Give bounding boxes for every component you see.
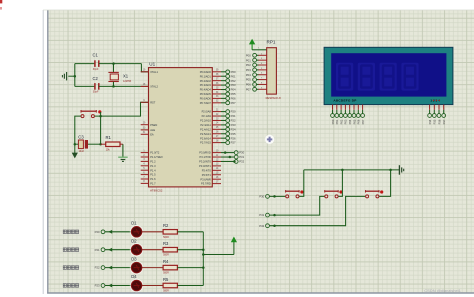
wire LED D1 to resistor R2	[142, 231, 163, 233]
node P30 at U1	[234, 151, 244, 155]
LED D2	[130, 238, 144, 256]
svg-text:P0.7/AD7: P0.7/AD7	[200, 101, 212, 105]
svg-text:P03: P03	[344, 119, 348, 124]
pin P3.5/T1 (pin 15) of U1	[202, 173, 221, 177]
junction C3 left	[74, 143, 77, 146]
svg-text:X1: X1	[123, 74, 129, 79]
pin G stub of display	[357, 105, 359, 110]
pin 2 stub of RP1	[259, 53, 267, 55]
svg-text:P1.3: P1.3	[150, 164, 156, 168]
wire display digit 3	[438, 110, 440, 114]
node P02 at U1	[226, 79, 236, 83]
svg-text:P30: P30	[239, 151, 244, 155]
LED D4	[130, 274, 144, 292]
node P36 at display	[437, 114, 441, 125]
svg-text:P32: P32	[239, 160, 244, 164]
svg-text:P2.7/A15: P2.7/A15	[200, 141, 211, 145]
pin EA (pin 31) of U1	[141, 132, 154, 136]
svg-text:C2: C2	[93, 76, 99, 81]
pin 7 stub of RP1	[259, 78, 267, 80]
wire display segment G	[357, 110, 359, 114]
arrow junction on P23 wire	[108, 284, 112, 288]
red junction dot on button 3	[380, 190, 383, 193]
svg-text:500R: 500R	[163, 254, 169, 257]
svg-text:P07: P07	[361, 119, 365, 124]
digit 2 segments	[358, 63, 375, 91]
wire RP1 pin 7	[256, 79, 258, 81]
supply bus vertical	[202, 232, 204, 286]
pin P2.3/A11 (pin 24) of U1	[200, 123, 221, 127]
wire resistor R5 to supply bus	[177, 285, 203, 287]
junction button 3 on rail	[389, 169, 392, 172]
screen corner mark pink	[0, 7, 2, 10]
junction on P3.2 wire	[233, 160, 236, 163]
resistor R3	[163, 241, 177, 257]
digit-select pin 2 stub of display	[433, 105, 435, 110]
capacitor C1	[93, 53, 99, 71]
pin 8 stub of RP1	[259, 82, 267, 84]
wire power to RP1 pin 1	[252, 49, 267, 51]
ground below R1	[118, 144, 128, 161]
svg-text:D3: D3	[131, 256, 137, 261]
svg-text:D1: D1	[131, 221, 137, 226]
node P00 at display	[331, 114, 335, 125]
pin F stub of display	[353, 105, 355, 110]
node P02 at display	[339, 114, 343, 125]
pin E stub of display	[349, 105, 351, 110]
wire P2.0 to terminal	[221, 111, 226, 113]
ground rail (buttons)	[304, 169, 400, 171]
svg-text:P34: P34	[428, 119, 432, 124]
svg-text:P3.1/TXD: P3.1/TXD	[200, 155, 211, 159]
node P20 at U1	[226, 110, 236, 114]
pin P2.7/A15 (pin 28) of U1	[200, 140, 221, 144]
pin RST (pin 9) of U1	[141, 100, 156, 104]
svg-text:12MHZ: 12MHZ	[123, 80, 132, 83]
svg-text:P01: P01	[246, 58, 251, 62]
svg-text:P20: P20	[231, 110, 236, 114]
pin P0.4/AD4 (pin 35) of U1	[200, 87, 221, 91]
node P00 at RP1	[246, 53, 257, 57]
svg-text:P0.0/AD0: P0.0/AD0	[200, 70, 212, 74]
ground (sideways) left of C1/C2	[62, 72, 75, 80]
node P20 at LED row	[95, 230, 105, 234]
svg-text:R4: R4	[163, 259, 169, 264]
capacitor C2	[93, 76, 99, 93]
svg-text:P02: P02	[339, 119, 343, 124]
node P02 at RP1	[246, 63, 257, 67]
pin P1.2 (pin 3) of U1	[141, 159, 156, 163]
pin P2.1/A9 (pin 22) of U1	[202, 114, 221, 118]
node P25 at U1	[226, 132, 236, 136]
ground terminal (down arrow) below C3	[72, 144, 78, 158]
svg-text:P07: P07	[231, 101, 236, 105]
node P27 at U1	[226, 141, 236, 145]
node P32 at buttons	[259, 224, 269, 228]
svg-text:1 2 3 4: 1 2 3 4	[430, 98, 440, 102]
pin P0.0/AD0 (pin 39) of U1	[200, 70, 221, 74]
pin 9 stub of RP1	[259, 87, 267, 89]
pin P0.7/AD7 (pin 32) of U1	[200, 101, 221, 105]
node P22 at U1	[226, 119, 236, 123]
node P34 at display	[428, 114, 432, 125]
wire display segment C	[340, 110, 342, 114]
arrow junction on P22 wire	[108, 266, 112, 270]
svg-text:XTAL2: XTAL2	[150, 85, 158, 89]
wire display segment E	[349, 110, 351, 114]
svg-text:10uF: 10uF	[79, 150, 85, 153]
svg-text:30pF: 30pF	[93, 91, 99, 94]
node P07 at U1	[226, 101, 236, 105]
node P01 at RP1	[246, 58, 257, 62]
wire P0.3 to terminal	[221, 84, 226, 86]
pin P0.1/AD1 (pin 38) of U1	[200, 74, 221, 78]
pin P2.0/A8 (pin 21) of U1	[202, 109, 221, 113]
digit-select pin 3 stub of display	[438, 105, 440, 110]
svg-text:D4: D4	[131, 274, 137, 279]
wire resistor R3 to supply bus	[177, 249, 203, 251]
node P32 at U1	[234, 160, 244, 164]
label (Chinese) for P21	[63, 248, 78, 252]
svg-text:P1.0/T2: P1.0/T2	[150, 151, 160, 155]
svg-text:P22: P22	[95, 266, 100, 270]
wire RP1 pin 5	[256, 69, 258, 71]
svg-text:30pF: 30pF	[93, 68, 99, 71]
svg-text:P0.2/AD2: P0.2/AD2	[200, 79, 212, 83]
wire P32 to button 3	[269, 196, 365, 225]
capacitor C3 (electrolytic)	[75, 134, 101, 153]
svg-text:P04: P04	[348, 119, 352, 124]
wire C2 to XTAL2	[99, 85, 149, 87]
ground (sideways) right of button rail	[399, 165, 403, 175]
svg-text:P36: P36	[437, 119, 441, 124]
pin 4 stub of RP1	[259, 63, 267, 65]
wire RP1 pin 2	[256, 54, 258, 56]
pin D stub of display	[344, 105, 346, 110]
wire display segment H	[362, 110, 364, 114]
pin P2.6/A14 (pin 27) of U1	[200, 136, 221, 140]
wire P3.2 to terminal	[221, 160, 234, 162]
window edge line	[42, 10, 44, 294]
svg-text:CSDN @dianzishej1: CSDN @dianzishej1	[424, 288, 461, 293]
junction button 2 on rail	[341, 169, 344, 172]
svg-text:P05: P05	[352, 119, 356, 124]
wire P2.6 to terminal	[221, 137, 226, 139]
svg-text:P23: P23	[231, 123, 236, 127]
junction on P3.1 wire	[229, 156, 232, 159]
svg-text:C1: C1	[93, 53, 99, 58]
pin P1.4 (pin 5) of U1	[141, 168, 156, 172]
label 1.2.3.4 on display	[430, 98, 440, 102]
screen corner mark red	[0, 0, 2, 3]
node P05 at RP1	[246, 78, 257, 82]
label (Chinese) for P22	[63, 266, 78, 270]
display screen	[331, 53, 446, 96]
wire RP1 pin 9	[256, 88, 258, 90]
wire P0.2 to terminal	[221, 80, 226, 82]
svg-text:P30: P30	[259, 195, 264, 199]
node P03 at display	[344, 114, 348, 125]
node P06 at RP1	[246, 83, 257, 87]
svg-text:P2.2/A10: P2.2/A10	[200, 119, 211, 123]
pin 3 stub of RP1	[259, 58, 267, 60]
svg-text:P2.4/A12: P2.4/A12	[200, 127, 211, 131]
junction C3-R1	[99, 143, 102, 146]
red junction dot on button 2	[339, 190, 342, 193]
power terminal at RP1 pin 1	[249, 39, 255, 50]
svg-text:P25: P25	[231, 132, 236, 136]
pin P2.4/A12 (pin 25) of U1	[200, 127, 221, 131]
sheet border bottom	[47, 292, 474, 294]
svg-text:P2.6/A14: P2.6/A14	[200, 136, 211, 140]
svg-text:P3.5/T1: P3.5/T1	[202, 173, 212, 177]
display LCD1 (4-digit 7-seg panel) frame	[324, 47, 453, 104]
wire display digit 1	[429, 110, 431, 114]
pin ALE (pin 30) of U1	[141, 128, 156, 132]
svg-text:P00: P00	[331, 119, 335, 124]
svg-text:P3.7/RD: P3.7/RD	[201, 182, 211, 186]
svg-text:C3: C3	[78, 134, 84, 139]
wire LED D4 to resistor R5	[142, 285, 163, 287]
svg-text:500R: 500R	[163, 290, 169, 293]
push button (reset)	[81, 110, 96, 118]
svg-text:P06: P06	[357, 119, 361, 124]
node P04 at U1	[226, 88, 236, 92]
wire LED D2 to resistor R3	[142, 249, 163, 251]
svg-text:P01: P01	[335, 119, 339, 124]
svg-text:P0.6/AD6: P0.6/AD6	[200, 96, 212, 100]
pin P2.5/A13 (pin 26) of U1	[200, 132, 221, 136]
sheet border left	[47, 10, 49, 293]
svg-text:P31: P31	[239, 155, 244, 159]
node P23 at U1	[226, 123, 236, 127]
svg-text:P2.0/A8: P2.0/A8	[202, 110, 212, 114]
label (Chinese) for P23	[63, 284, 78, 288]
svg-text:P3.6/WR: P3.6/WR	[200, 177, 211, 181]
svg-text:P20: P20	[95, 230, 100, 234]
node P01 at U1	[226, 74, 236, 78]
pin P3.1/TXD (pin 11) of U1	[200, 155, 221, 159]
svg-text:P27: P27	[231, 141, 236, 145]
red junction dot on button 1	[300, 190, 303, 193]
pin 6 stub of RP1	[259, 73, 267, 75]
svg-text:P3.0/RXD: P3.0/RXD	[199, 151, 211, 155]
svg-text:P02: P02	[246, 63, 251, 67]
arrow junction on P20 wire	[108, 230, 112, 234]
junction reset node	[99, 115, 102, 118]
node P07 at display	[361, 114, 365, 125]
junction crystal bottom	[112, 85, 115, 88]
wire P2.2 to terminal	[221, 119, 226, 121]
pin 5 stub of RP1	[259, 68, 267, 70]
svg-text:P06: P06	[231, 96, 236, 100]
wire display digit 2	[433, 110, 435, 114]
push button 3 (P32)	[366, 190, 380, 198]
wire left vertical of crystal caps	[74, 64, 76, 87]
wire LED D3 to resistor R4	[142, 267, 163, 269]
svg-text:P21: P21	[95, 248, 100, 252]
pin P3.3/INT1 (pin 13) of U1	[199, 164, 221, 168]
junction bus branch	[202, 253, 205, 256]
node P21 at U1	[226, 114, 236, 118]
digit-select pin 4 stub of display	[443, 105, 445, 110]
node P31 at buttons	[259, 213, 269, 217]
wire P30 to button 1	[269, 195, 285, 197]
node P37 at display	[442, 114, 446, 125]
wire into XTAL1	[141, 64, 148, 72]
node P26 at U1	[226, 136, 236, 140]
svg-text:P0.4/AD4: P0.4/AD4	[200, 88, 212, 92]
wire bus to power terminal	[203, 254, 234, 256]
pin P1.5 (pin 6) of U1	[141, 172, 156, 176]
node P31 at U1	[234, 155, 244, 159]
node P01 at display	[335, 114, 339, 125]
wire P2.5 to terminal	[221, 133, 226, 135]
junction on P3.0 wire	[224, 151, 227, 154]
svg-text:P26: P26	[231, 136, 236, 140]
red junction dot on reset button	[98, 110, 101, 113]
svg-text:P0.5/AD5: P0.5/AD5	[200, 92, 212, 96]
wire P0.0 to terminal	[221, 71, 226, 73]
node P05 at display	[352, 114, 356, 125]
node P03 at RP1	[246, 68, 257, 72]
pin P3.7/RD (pin 17) of U1	[201, 181, 221, 185]
resistor R4	[163, 259, 177, 275]
node P30 at buttons	[259, 195, 269, 199]
wire RP1 pin 8	[256, 83, 258, 85]
svg-text:P06: P06	[246, 83, 251, 87]
resistor pack RP1 body	[266, 39, 282, 99]
node P22 at LED row	[95, 266, 105, 270]
svg-text:P00: P00	[231, 70, 236, 74]
pin P0.6/AD6 (pin 33) of U1	[200, 96, 221, 100]
svg-text:500R: 500R	[163, 236, 169, 239]
pin P1.7 (pin 8) of U1	[141, 181, 156, 185]
svg-text:PSEN: PSEN	[150, 123, 157, 127]
svg-text:R1: R1	[106, 135, 112, 140]
pin C stub of display	[340, 105, 342, 110]
node P00 at U1	[226, 70, 236, 74]
svg-text:P1.5: P1.5	[150, 173, 156, 177]
junction on P32 wire	[273, 224, 276, 227]
junction bus row 2	[202, 248, 205, 251]
svg-text:P1.6: P1.6	[150, 177, 156, 181]
pin H stub of display	[362, 105, 364, 110]
wire resistor R2 to supply bus	[177, 231, 203, 233]
pin P0.5/AD5 (pin 34) of U1	[200, 92, 221, 96]
svg-text:P2.3/A11: P2.3/A11	[200, 123, 211, 127]
svg-text:U1: U1	[149, 62, 155, 67]
label (Chinese) for P20	[63, 230, 78, 234]
svg-text:P05: P05	[246, 78, 251, 82]
resistor R1	[101, 135, 123, 152]
junction crystal top	[112, 62, 115, 65]
pin P3.2/INT0 (pin 12) of U1	[199, 159, 221, 163]
microcontroller U1 body	[149, 62, 213, 193]
svg-text:P1.4: P1.4	[150, 168, 156, 172]
digit 3 segments	[380, 63, 397, 91]
wire button 3 to ground rail	[379, 170, 390, 197]
arrow junction on P21 wire	[108, 248, 112, 252]
pin P1.1/T2EX (pin 2) of U1	[141, 155, 163, 159]
wire display segment D	[344, 110, 346, 114]
wire display segment F	[353, 110, 355, 114]
wire to C1 left	[75, 63, 95, 65]
svg-text:P02: P02	[231, 79, 236, 83]
wire P2.4 to terminal	[221, 128, 226, 130]
wire P0.1 to terminal	[221, 75, 226, 77]
push button 1 (P30)	[286, 190, 300, 198]
svg-text:ABCDEFG DP: ABCDEFG DP	[333, 99, 356, 103]
svg-text:P04: P04	[246, 73, 251, 77]
wire P0.4 to terminal	[221, 89, 226, 91]
svg-text:R2: R2	[163, 223, 169, 228]
node P04 at RP1	[246, 73, 257, 77]
svg-text:P0.1/AD1: P0.1/AD1	[200, 74, 212, 78]
wire P3.0 to terminal	[221, 152, 234, 154]
wire reset button left down to C3	[75, 116, 81, 144]
wire P0.5 to terminal	[221, 93, 226, 95]
pin P1.0/T2 (pin 1) of U1	[141, 150, 160, 154]
svg-text:P05: P05	[231, 92, 236, 96]
svg-text:P1.7: P1.7	[150, 182, 156, 186]
svg-text:RST: RST	[150, 100, 156, 104]
svg-text:P00: P00	[246, 53, 251, 57]
cursor crosshair	[265, 135, 274, 144]
svg-text:P23: P23	[95, 284, 100, 288]
wire P0.6 to terminal	[221, 97, 226, 99]
digit 1 segments	[336, 63, 353, 91]
svg-text:P2.1/A9: P2.1/A9	[202, 114, 212, 118]
svg-text:P3.4/T0: P3.4/T0	[202, 168, 212, 172]
svg-text:P03: P03	[231, 83, 236, 87]
svg-text:P22: P22	[231, 119, 236, 123]
junction on P30 wire	[273, 195, 276, 198]
svg-text:P2.5/A13: P2.5/A13	[200, 132, 211, 136]
LED D1	[130, 221, 144, 239]
window top edge	[43, 9, 474, 11]
wire display segment A	[332, 110, 334, 114]
pin PSEN (pin 29) of U1	[141, 123, 158, 127]
wire P22 to LED D3	[105, 267, 131, 269]
svg-text:ALE: ALE	[150, 128, 155, 132]
wire P23 to LED D4	[105, 285, 131, 287]
junction at ground tap	[74, 75, 77, 78]
wire reset node to RST pin	[95, 102, 149, 116]
wire button 2 to ground rail	[338, 170, 342, 197]
pin P3.0/RXD (pin 10) of U1	[199, 150, 221, 154]
svg-text:P37: P37	[442, 119, 446, 124]
wire reset button to C3/R1 junction	[100, 112, 102, 144]
pin B stub of display	[336, 105, 338, 110]
digit 4 segments	[401, 63, 418, 91]
svg-text:P35: P35	[433, 119, 437, 124]
svg-text:EA: EA	[150, 132, 154, 136]
junction bus row 3	[202, 266, 205, 269]
svg-text:500R: 500R	[163, 272, 169, 275]
wire P0.7 to terminal	[221, 102, 226, 104]
svg-text:R5: R5	[163, 277, 169, 282]
wire P31 to button 2	[269, 196, 324, 215]
resistor R5	[163, 277, 177, 293]
svg-text:RESPACK-8: RESPACK-8	[266, 96, 282, 100]
pin P3.4/T0 (pin 14) of U1	[202, 168, 221, 172]
pin P1.6 (pin 7) of U1	[141, 177, 156, 181]
node P04 at display	[348, 114, 352, 125]
push button 2 (P31)	[325, 190, 339, 198]
power terminal (LED supply)	[231, 237, 237, 255]
svg-text:P01: P01	[231, 74, 236, 78]
